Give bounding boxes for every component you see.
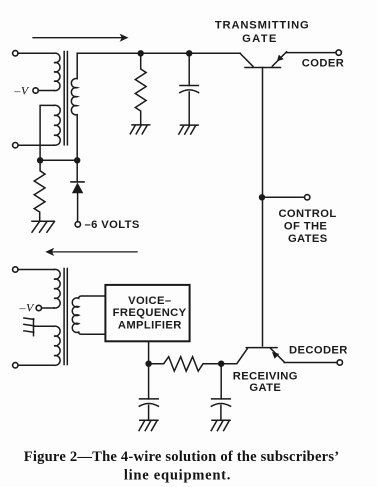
ground C2 <box>179 125 198 134</box>
transistor Q1 base bar <box>245 67 281 69</box>
ground R1 <box>32 221 54 232</box>
junction node amp output <box>145 361 151 367</box>
svg-text:DECODER: DECODER <box>289 345 348 357</box>
svg-text:–V: –V <box>18 301 35 315</box>
svg-text:CONTROL: CONTROL <box>278 208 336 220</box>
wire Q1 base down to Q2 base <box>262 68 264 346</box>
terminal bottom-left <box>13 143 18 148</box>
svg-text:TRANSMITTING: TRANSMITTING <box>215 19 310 31</box>
diode D1 <box>71 160 84 222</box>
transistor Q2 receiving gate: collector <box>221 349 247 364</box>
wire chassis ground to T2 primary P2 <box>34 325 55 327</box>
wire T1 P2 to bottom-left terminal <box>18 144 54 146</box>
transformer T1 primary winding P1 <box>54 53 60 91</box>
transformer T2 secondary winding <box>72 296 105 334</box>
svg-text:OF THE: OF THE <box>284 220 328 232</box>
svg-text:FREQUENCY: FREQUENCY <box>113 307 187 319</box>
svg-text:line equipment.: line equipment. <box>124 468 231 484</box>
svg-text:–6 VOLTS: –6 VOLTS <box>85 219 140 231</box>
label VOICE-FREQUENCY AMPLIFIER <box>113 295 187 331</box>
terminal DECODER <box>337 360 342 365</box>
terminal bottom-left (receive) <box>13 363 18 368</box>
wire terminal to T2 primary P1 <box>18 269 54 271</box>
wire amplifier output down <box>148 341 150 363</box>
transistor Q2 emitter with arrow <box>271 348 285 362</box>
transistor Q2 base bar <box>246 347 277 349</box>
terminal CODER <box>336 50 341 55</box>
resistor R1 <box>34 160 45 221</box>
top signal-flow arrow <box>33 34 129 42</box>
svg-text:AMPLIFIER: AMPLIFIER <box>118 319 182 331</box>
svg-text:GATES: GATES <box>288 233 328 245</box>
receive signal-flow arrow <box>45 248 137 256</box>
svg-text:CODER: CODER <box>302 58 344 70</box>
junction node right (diode top) <box>74 157 80 163</box>
wire to -V terminal (T2) <box>42 307 55 309</box>
block voice-frequency amplifier <box>105 285 189 341</box>
ground R2 <box>130 125 149 134</box>
transformer T2 primary winding P2 <box>54 326 60 365</box>
transformer T1 secondary winding <box>71 53 77 160</box>
terminal -V (T2) <box>36 305 41 310</box>
capacitor C4 <box>211 364 230 421</box>
terminal top-left line-in <box>13 51 18 56</box>
transistor Q1 transmitting gate: collector <box>240 53 253 66</box>
transformer T2 core <box>64 269 67 365</box>
chassis ground T2 <box>24 318 34 336</box>
junction node C2 top <box>186 50 192 56</box>
ground C4 <box>211 420 230 430</box>
label RECEIVING GATE <box>233 370 298 394</box>
terminal receive line top <box>13 267 18 272</box>
label CONTROL OF THE GATES <box>278 208 336 245</box>
svg-text:GATE: GATE <box>249 382 281 394</box>
capacitor C3 <box>139 364 158 421</box>
svg-text:RECEIVING: RECEIVING <box>233 370 298 382</box>
ground C3 <box>139 420 158 430</box>
wire control to terminal <box>262 196 305 198</box>
label TRANSMITTING GATE <box>215 19 310 45</box>
resistor R3 horizontal <box>149 357 222 371</box>
wire bracket from junction up to T1 primary P2 <box>40 105 54 160</box>
transformer T1 primary winding P2 <box>54 105 60 145</box>
junction node control <box>259 194 265 200</box>
terminal CONTROL <box>305 195 310 200</box>
svg-text:–V: –V <box>13 83 30 97</box>
terminal -V (T1) <box>33 88 38 93</box>
svg-text:Figure 2—The 4-wire solution o: Figure 2—The 4-wire solution of the subs… <box>24 449 340 465</box>
junction node R2 top <box>138 50 144 56</box>
wire terminal to T1 primary P1 <box>18 52 54 54</box>
transformer T1 core <box>64 52 67 145</box>
junction node R3 right <box>218 361 224 367</box>
transistor Q1 emitter with arrow <box>272 52 286 66</box>
svg-text:VOICE–: VOICE– <box>128 295 171 307</box>
resistor R2 <box>135 53 146 124</box>
svg-text:GATE: GATE <box>242 33 277 45</box>
terminal -6 VOLTS <box>75 222 80 227</box>
junction node left (R1 top) <box>37 157 43 163</box>
wire junction link T1 bottom <box>40 159 77 161</box>
caption figure text <box>24 449 340 484</box>
wire T2 P2 to bottom-left terminal <box>18 364 54 366</box>
wire Q2 emitter to DECODER terminal <box>284 362 337 364</box>
wire to -V terminal (T1) <box>38 90 54 92</box>
capacitor C2 <box>180 53 199 125</box>
transformer T2 primary winding P1 <box>54 269 60 308</box>
wire top rail <box>77 52 240 54</box>
wire Q1 emitter to CODER terminal <box>287 52 337 54</box>
